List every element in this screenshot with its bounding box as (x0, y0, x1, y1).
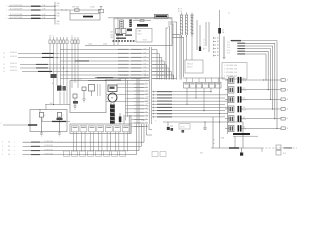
junction cluster (51, 74, 57, 78)
ECU inner block A (120, 20, 124, 28)
svg-text:J4: J4 (287, 109, 289, 111)
ECU inner bar B (129, 20, 132, 28)
svg-text:105: 105 (144, 63, 147, 65)
svg-text:3 6 2 1: 3 6 2 1 (49, 36, 54, 38)
wire IG2 feed (227, 42, 275, 119)
svg-text:31: 31 (147, 106, 149, 108)
svg-text:11: 11 (146, 83, 148, 85)
svg-text:E03: E03 (200, 153, 203, 155)
wire vertical V200 (199, 25, 201, 50)
ECU connector boundary (117, 18, 119, 46)
wire H7 harness (3, 70, 149, 73)
svg-text:107: 107 (144, 70, 147, 72)
ECU lower patches (116, 34, 132, 39)
mark small G7 (170, 126, 184, 133)
connector C134 edge (85, 44, 114, 46)
wire H3 harness (3, 56, 149, 59)
shielded cable SH2 (185, 13, 188, 61)
svg-text:0.5 G: 0.5 G (243, 80, 248, 82)
svg-text:ETCS: ETCS (181, 127, 185, 129)
svg-text:0.5 G: 0.5 G (243, 109, 248, 111)
wire H9 harness (60, 77, 149, 79)
wire IG1 feed (230, 40, 277, 128)
svg-text:4: 4 (1, 123, 2, 125)
ground G6 (240, 148, 243, 156)
svg-text:0.5 G: 0.5 G (243, 119, 248, 121)
svg-text:31: 31 (147, 100, 149, 102)
actuator lower element (110, 102, 115, 124)
wire drop V243 (242, 122, 244, 148)
shielded cable SH3 (190, 13, 193, 61)
svg-text:J2: J2 (287, 89, 289, 91)
solenoid L2 (57, 113, 64, 132)
svg-text:A3: A3 (217, 44, 219, 47)
vertical feeders (126, 78, 128, 121)
junction dots coil bus (263, 79, 278, 129)
svg-text:F02: F02 (57, 23, 60, 25)
svg-text:A22: A22 (111, 33, 114, 36)
wire W4 battery feed (7, 17, 56, 20)
shield terminal box (185, 60, 203, 73)
svg-text:DIAG: DIAG (138, 30, 143, 33)
svg-text:D1: D1 (222, 30, 224, 32)
connector row CN5 (72, 126, 130, 152)
svg-text:1. J/B FUSE 10A: 1. J/B FUSE 10A (224, 64, 238, 67)
wire top of JB (42, 119, 70, 123)
injector T2 (225, 87, 247, 94)
svg-text:GN-W 0.5: GN-W 0.5 (10, 70, 17, 72)
pin labels column (111, 31, 114, 40)
wire H5 harness (3, 63, 149, 66)
label cluster mid-right (204, 40, 207, 50)
ECU small blocks row (116, 29, 133, 34)
svg-text:B+1 12V RD-WH: B+1 12V RD-WH (10, 17, 23, 19)
wire vertical V209 (208, 22, 210, 52)
svg-text:10A: 10A (57, 12, 61, 15)
label coil note (233, 133, 258, 148)
svg-text:=: = (155, 120, 156, 122)
actuator box M1 top (108, 85, 117, 92)
injector T6 (225, 125, 247, 132)
svg-text:GND 02: GND 02 (187, 67, 193, 69)
wire BL3 harness (2, 124, 139, 152)
svg-text:2.0B: 2.0B (42, 14, 45, 16)
sensor element B2c (89, 85, 95, 97)
svg-text:1L 3: 1L 3 (204, 45, 207, 47)
svg-text:31: 31 (147, 103, 149, 105)
svg-text:1L 2: 1L 2 (204, 42, 207, 44)
svg-text:B+1 12V RD-WH: B+1 12V RD-WH (10, 9, 23, 11)
wire injector row 3 (242, 98, 289, 101)
wire H8 harness (60, 74, 149, 76)
label shield note (178, 9, 182, 14)
svg-text:IG 6: IG 6 (227, 53, 230, 55)
ground G3 (58, 132, 61, 137)
label header row (120, 74, 168, 77)
svg-text:31: 31 (147, 93, 149, 95)
wire main right bus V219 (219, 10, 221, 148)
svg-text:E2 E1: E2 E1 (143, 40, 147, 42)
wire motor harness rows (106, 83, 148, 128)
wire BL4 harness (2, 124, 137, 156)
wire feed to fuse (55, 9, 101, 10)
svg-text:1L 4: 1L 4 (204, 48, 207, 50)
svg-text:0.5 BR-W A0: 0.5 BR-W A0 (44, 140, 53, 143)
svg-text:B+1 12V RD-WH: B+1 12V RD-WH (10, 14, 23, 16)
svg-text:GN-W 0.5: GN-W 0.5 (10, 63, 17, 65)
wire W1 battery feed (7, 5, 56, 8)
svg-text:0.5 G: 0.5 G (243, 100, 248, 102)
svg-text:12: 12 (146, 86, 148, 88)
svg-text:GN-W 0.5: GN-W 0.5 (10, 67, 17, 69)
injector T4 (225, 106, 247, 113)
injector T1 (225, 77, 247, 84)
connector edge pair (129, 115, 131, 134)
ground G5 (39, 109, 41, 112)
sensor G1 cluster (52, 82, 66, 91)
svg-text:21: 21 (3, 64, 5, 66)
ECU resistor row (133, 19, 151, 22)
svg-text:C135: C135 (103, 44, 107, 46)
wire vertical V224 (223, 37, 226, 59)
svg-text:21: 21 (3, 53, 5, 55)
sensor box B2 outline (70, 78, 106, 113)
svg-text:A: A (52, 82, 53, 85)
wire motor harness top rows (88, 77, 149, 81)
svg-text:W2: W2 (8, 146, 10, 148)
svg-text:A5: A5 (217, 51, 219, 54)
wire IG3 feed (227, 45, 273, 110)
shielded cable SH1 (180, 13, 183, 80)
wire ground link (45, 103, 70, 110)
wire BL1 harness (2, 124, 144, 144)
svg-text:W1: W1 (8, 142, 10, 144)
svg-text:103: 103 (144, 56, 147, 58)
ECU U1 outline (108, 18, 172, 46)
svg-text:31: 31 (147, 97, 149, 99)
wire drop V213 (212, 117, 214, 148)
svg-text:A1: A1 (217, 37, 219, 40)
svg-text:106: 106 (144, 67, 147, 69)
svg-text:30A: 30A (57, 20, 61, 23)
wire H4 harness (60, 60, 149, 62)
svg-text:E01: E01 (50, 103, 53, 105)
svg-text:R: R (45, 115, 46, 117)
svg-text:=: = (14, 146, 15, 148)
svg-text:31: 31 (147, 112, 149, 114)
svg-text:101: 101 (144, 48, 147, 50)
wire bus ECU right exits (166, 22, 184, 80)
svg-text:ISO-K: ISO-K (138, 34, 142, 36)
svg-text:J5: J5 (287, 118, 289, 120)
wire vertical V197 (196, 20, 198, 50)
wire harness bends right (152, 50, 177, 80)
resistor R9 (199, 47, 205, 52)
motor M1 (108, 93, 117, 102)
svg-text:=: = (14, 150, 15, 152)
svg-text:104: 104 (144, 60, 147, 62)
relay K1 box (70, 10, 100, 20)
svg-text:22: 22 (146, 122, 148, 124)
svg-text:0.5 BR-W A2: 0.5 BR-W A2 (44, 148, 53, 151)
svg-text:102: 102 (144, 52, 147, 54)
svg-text:2.0B: 2.0B (42, 9, 45, 11)
wire bank ETCS rows (147, 90, 228, 118)
svg-text:0.5 G: 0.5 G (243, 90, 248, 92)
terminal strip CN4 (183, 78, 225, 88)
junction box JB outline (70, 124, 131, 134)
connector pins CN-A (214, 37, 220, 58)
sensor element B2b (82, 87, 86, 102)
wire injector row 5 (242, 117, 289, 120)
svg-text:A2: A2 (217, 40, 219, 43)
svg-text:E2: E2 (213, 143, 215, 145)
coil bus left V227 (227, 79, 229, 134)
diode D1 on bus (218, 28, 225, 34)
svg-text:A21: A21 (111, 31, 114, 34)
wire H1 harness (60, 48, 149, 50)
svg-text:A4: A4 (217, 47, 219, 50)
wire staircase bundle (147, 124, 153, 135)
svg-text:R: R (63, 115, 64, 117)
node splice S1 fuse bus (54, 2, 60, 26)
svg-text:GN-W 0.5: GN-W 0.5 (10, 56, 17, 58)
label V211 tail (213, 138, 224, 146)
connector row CN3 (49, 36, 79, 105)
injector T3 (225, 96, 247, 103)
ECU sub box (136, 29, 152, 43)
sensor inner pair (98, 84, 101, 96)
wire injector row 4 (242, 108, 289, 111)
svg-text:B10: B10 (283, 153, 286, 155)
svg-text:0.5 BR-W A1: 0.5 BR-W A1 (44, 144, 53, 147)
relay box K2 outline (30, 110, 67, 132)
sensor element B2a (73, 94, 78, 109)
connector stub top (99, 7, 104, 13)
svg-text:2A: 2A (222, 31, 225, 34)
svg-text:M: M (111, 98, 113, 100)
capacitor C9 (203, 122, 206, 130)
svg-text:=: = (14, 154, 15, 156)
svg-text:31: 31 (147, 109, 149, 111)
connector row CN6 bottom (64, 151, 167, 157)
label ECM title box (155, 14, 169, 18)
svg-text:IG 5: IG 5 (227, 50, 230, 52)
svg-text:21: 21 (3, 68, 5, 70)
svg-text:B+1 12V RD-WH: B+1 12V RD-WH (10, 5, 23, 7)
svg-text:J3: J3 (287, 99, 289, 101)
note box N1 (222, 63, 247, 80)
wire BL2 harness (2, 124, 142, 148)
svg-text:B24: B24 (283, 147, 286, 149)
svg-text:1: 1 (7, 10, 8, 12)
wire W3 battery feed (7, 14, 56, 17)
svg-text:31: 31 (147, 90, 149, 92)
svg-text:=: = (14, 142, 15, 144)
wire IG4 feed (227, 47, 270, 99)
svg-text:1.25B: 1.25B (90, 7, 95, 9)
ECU bottom pin row (113, 40, 135, 42)
bus pair V137 (137, 78, 139, 124)
svg-text:J1: J1 (287, 80, 289, 82)
wire vertical V206 (205, 22, 207, 46)
box ETCS label (179, 124, 190, 130)
svg-text:1: 1 (7, 15, 8, 17)
svg-text:C134: C134 (88, 44, 92, 46)
svg-text:VCC THW E2: VCC THW E2 (158, 75, 168, 77)
svg-text:F08: F08 (57, 15, 60, 17)
svg-text:9: 9 (2, 154, 3, 156)
svg-text:EFI 15A: EFI 15A (73, 6, 80, 9)
svg-text:GN-W 0.5: GN-W 0.5 (10, 52, 17, 54)
svg-text:4 5: 4 5 (71, 36, 73, 38)
svg-text:SHLD 01: SHLD 01 (187, 63, 193, 65)
connector CN7 bottom right (276, 145, 286, 155)
wire H6 harness (3, 67, 149, 70)
fuse F1 EFI (73, 6, 80, 12)
svg-text:2.0B: 2.0B (42, 17, 45, 19)
relay K3 element (119, 113, 124, 124)
connector C2 column (150, 47, 152, 124)
svg-text:IG 2: IG 2 (227, 42, 230, 44)
wire IG6 feed (227, 53, 266, 80)
ECU dark label row (137, 24, 148, 27)
svg-text:21: 21 (146, 118, 148, 120)
svg-text:1. J/B FUSE 10A: 1. J/B FUSE 10A (224, 67, 238, 70)
svg-text:W-B: W-B (221, 138, 224, 140)
wire ground bus bottom (211, 147, 297, 152)
wire sensor feed left (1, 123, 39, 126)
solenoid L1 (39, 113, 45, 132)
svg-text:21: 21 (3, 71, 5, 73)
svg-text:A6: A6 (217, 54, 219, 57)
svg-text:31: 31 (147, 116, 149, 118)
svg-text:R12: R12 (135, 19, 138, 21)
svg-text:C1: C1 (228, 13, 230, 15)
svg-text:1L 1: 1L 1 (204, 40, 207, 42)
svg-text:B 2.2: B 2.2 (178, 9, 182, 11)
wire W2 battery feed (7, 9, 56, 12)
svg-text:1: 1 (7, 18, 8, 20)
svg-text:A23: A23 (111, 36, 114, 39)
wire injector row 6 (242, 127, 289, 130)
svg-text:21: 21 (3, 57, 5, 59)
svg-text:1: 1 (7, 6, 8, 8)
diode D2 (167, 122, 170, 130)
svg-text:9: 9 (2, 146, 3, 148)
wire H2 harness (3, 52, 149, 55)
svg-text:1. J/B FUSE 10A: 1. J/B FUSE 10A (224, 71, 238, 74)
svg-text:IG 4: IG 4 (227, 47, 230, 49)
svg-text:0.5 G: 0.5 G (243, 129, 248, 131)
svg-text:W3: W3 (8, 150, 10, 152)
svg-text:F12: F12 (57, 5, 60, 7)
svg-text:9: 9 (2, 142, 3, 144)
svg-text:J6: J6 (287, 128, 289, 130)
svg-text:E1: E1 (213, 140, 215, 142)
wire injector row 1 (242, 79, 289, 82)
strip risers (187, 88, 211, 111)
wire VPA2 long (141, 119, 243, 122)
ground G2 (40, 132, 43, 137)
svg-text:9: 9 (2, 150, 3, 152)
wire IG5 feed (227, 50, 268, 90)
svg-text:0.5 BR-W A3: 0.5 BR-W A3 (44, 152, 53, 155)
svg-text:M+ M-: M+ M- (144, 75, 149, 77)
svg-text:W4: W4 (8, 154, 10, 156)
svg-text:15A: 15A (57, 2, 61, 5)
svg-text:2.0B: 2.0B (42, 5, 45, 7)
injector T5 (225, 116, 247, 123)
svg-text:IG 3: IG 3 (227, 45, 230, 47)
wire injector row 2 (242, 88, 289, 91)
